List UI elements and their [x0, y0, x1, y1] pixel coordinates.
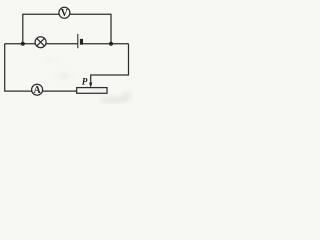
svg-text:V: V: [61, 8, 69, 19]
svg-text:A: A: [33, 85, 41, 96]
svg-text:P: P: [82, 76, 88, 86]
